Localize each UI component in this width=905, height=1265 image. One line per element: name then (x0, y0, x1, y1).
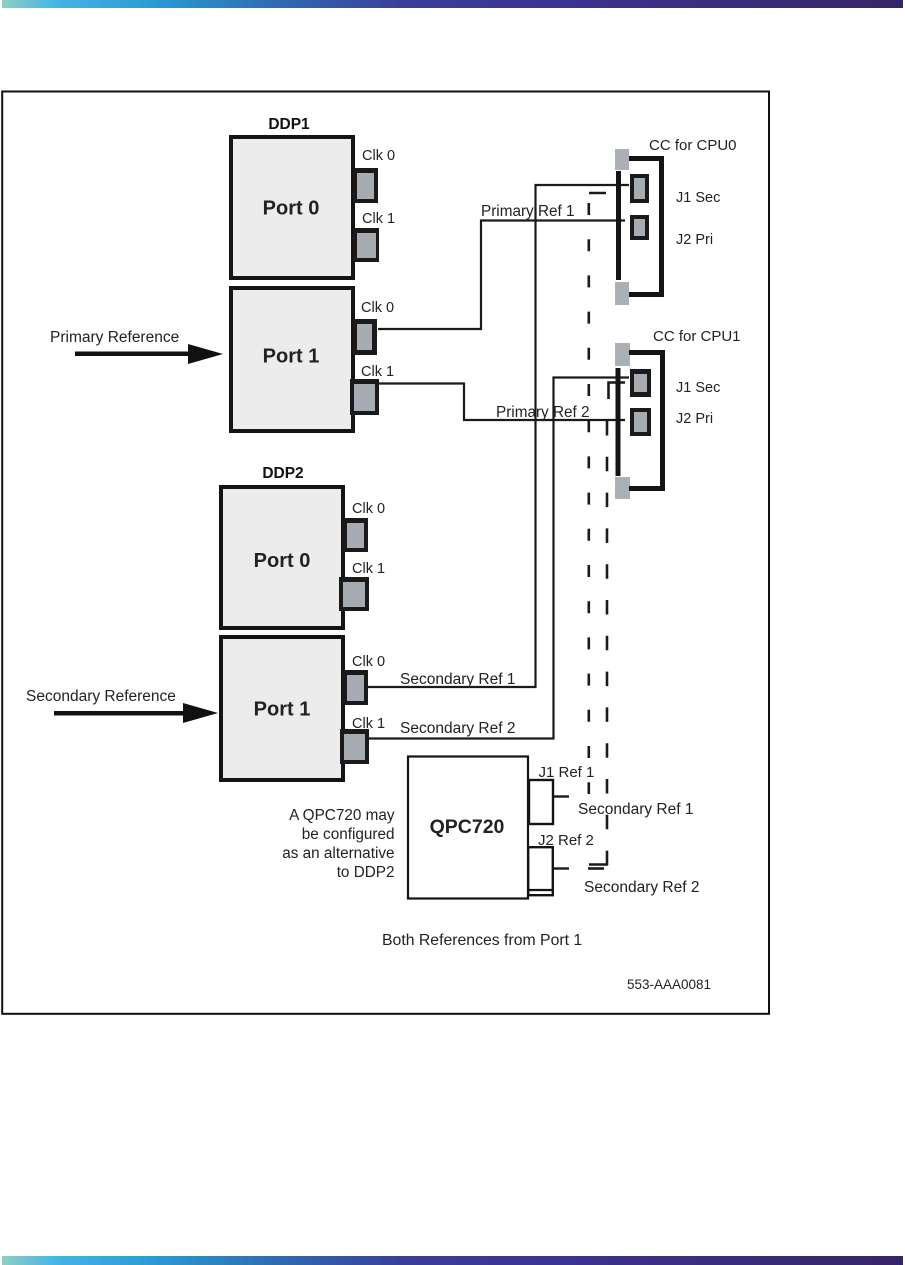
svg-text:Primary Ref 1: Primary Ref 1 (481, 203, 575, 220)
svg-text:Secondary Ref 1: Secondary Ref 1 (400, 671, 515, 688)
svg-text:QPC720: QPC720 (430, 816, 505, 838)
svg-text:DDP2: DDP2 (262, 465, 303, 482)
svg-text:Clk 0: Clk 0 (352, 501, 385, 517)
svg-text:Port 1: Port 1 (263, 346, 320, 368)
svg-text:Port 0: Port 0 (254, 550, 311, 572)
svg-text:Clk 0: Clk 0 (361, 300, 394, 316)
svg-text:J1 Sec: J1 Sec (676, 190, 720, 206)
svg-text:Clk 0: Clk 0 (362, 148, 395, 164)
svg-text:A QPC720 may: A QPC720 may (289, 807, 395, 824)
svg-text:Secondary Ref 1: Secondary Ref 1 (578, 801, 693, 818)
svg-text:Clk 1: Clk 1 (362, 211, 395, 227)
svg-text:Primary Reference: Primary Reference (50, 329, 179, 346)
svg-text:as an alternative: as an alternative (282, 845, 394, 862)
svg-text:Clk 1: Clk 1 (361, 364, 394, 380)
svg-text:CC for CPU1: CC for CPU1 (653, 328, 741, 345)
svg-text:Secondary Ref 2: Secondary Ref 2 (400, 720, 515, 737)
svg-text:J2 Pri: J2 Pri (676, 232, 713, 248)
svg-text:Port 1: Port 1 (254, 699, 311, 721)
svg-text:Primary Ref 2: Primary Ref 2 (496, 404, 590, 421)
svg-text:Clk 1: Clk 1 (352, 716, 385, 732)
svg-text:to DDP2: to DDP2 (337, 864, 395, 881)
svg-text:DDP1: DDP1 (268, 116, 310, 133)
svg-text:553-AAA0081: 553-AAA0081 (627, 977, 711, 992)
svg-text:Both References from Port 1: Both References from Port 1 (382, 932, 582, 949)
svg-text:CC for CPU0: CC for CPU0 (649, 137, 737, 154)
svg-text:Port 0: Port 0 (263, 198, 320, 220)
svg-text:Clk 0: Clk 0 (352, 654, 385, 670)
svg-text:J1 Ref 1: J1 Ref 1 (539, 764, 595, 781)
svg-text:be configured: be configured (302, 826, 395, 843)
svg-text:Clk 1: Clk 1 (352, 561, 385, 577)
svg-text:Secondary Ref 2: Secondary Ref 2 (584, 879, 699, 896)
svg-text:J1 Sec: J1 Sec (676, 380, 720, 396)
svg-text:J2 Ref 2: J2 Ref 2 (538, 832, 594, 849)
svg-text:Secondary Reference: Secondary Reference (26, 688, 176, 705)
svg-text:J2 Pri: J2 Pri (676, 411, 713, 427)
